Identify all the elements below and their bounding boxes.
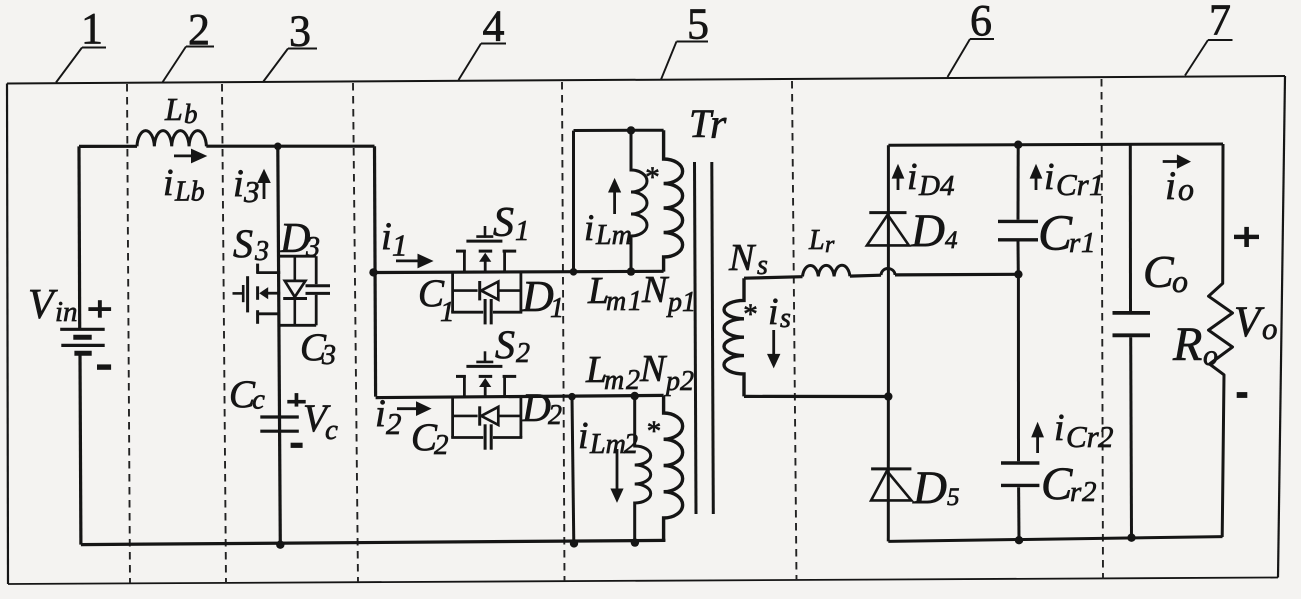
wire D5 branch — [887, 397, 890, 542]
label Cc — [229, 373, 265, 416]
svg-text:i: i — [233, 162, 244, 205]
node secondary bottom — [884, 392, 892, 400]
node Cr2 bottom — [1015, 536, 1023, 544]
svg-text:p: p — [666, 287, 682, 318]
svg-text:i: i — [1165, 163, 1176, 208]
svg-text:D: D — [521, 385, 551, 430]
label S2 — [495, 322, 530, 369]
label D2 — [521, 385, 562, 431]
svg-text:C: C — [1143, 246, 1175, 297]
section label 1 — [56, 4, 106, 83]
svg-text:3: 3 — [254, 236, 269, 267]
wire Lm1 box — [574, 130, 664, 272]
svg-text:N: N — [641, 269, 670, 311]
label S1 — [493, 200, 530, 247]
svg-text:i: i — [163, 162, 174, 204]
boundary line b — [222, 84, 226, 583]
label Lb — [164, 91, 198, 129]
polarity star Np2 — [647, 416, 662, 448]
label iD4 — [907, 156, 955, 202]
label iCr2 — [1054, 407, 1114, 454]
label C3 — [300, 326, 336, 371]
svg-text:S: S — [233, 221, 253, 266]
label i2 — [375, 392, 402, 441]
winding Np2 — [664, 396, 683, 542]
polarity star Ns — [743, 299, 758, 331]
svg-text:L: L — [164, 91, 183, 127]
capacitor Cc — [260, 417, 299, 431]
output minus sign — [1237, 392, 1248, 398]
svg-text:*: * — [743, 299, 758, 331]
svg-text:*: * — [645, 162, 660, 194]
label Ro — [1172, 318, 1218, 372]
svg-text:i: i — [907, 156, 918, 198]
svg-text:2: 2 — [434, 429, 449, 461]
svg-text:Lb: Lb — [174, 177, 205, 208]
label Np2 — [639, 348, 694, 397]
wire left input lower — [78, 353, 82, 544]
node Lm2 left top — [568, 393, 576, 401]
wire top rail — [888, 144, 1223, 145]
section label 4 — [459, 2, 507, 81]
diode D2 and capacitor C2 box — [451, 397, 522, 450]
arrow i2 — [397, 401, 432, 416]
label i1 — [381, 215, 408, 263]
svg-text:i: i — [375, 392, 386, 435]
arrow i3 — [257, 169, 271, 199]
node Lm1 top — [627, 126, 635, 134]
label Ns — [728, 237, 768, 281]
boundary line d — [562, 82, 565, 581]
battery minus sign — [97, 364, 111, 369]
svg-text:N: N — [728, 237, 757, 279]
label Lm2 — [585, 349, 640, 396]
svg-text:V: V — [1234, 299, 1265, 346]
svg-text:o: o — [1178, 171, 1194, 207]
node Cc bottom — [276, 541, 284, 549]
wire top-left rail — [79, 145, 137, 148]
wire corner down to i2 rail — [375, 146, 376, 396]
label i3 — [233, 162, 260, 209]
node Lm2 bottom — [631, 538, 639, 546]
svg-text:s: s — [780, 303, 791, 334]
wire Lm2 box — [572, 397, 574, 544]
label io — [1165, 163, 1194, 208]
svg-text:Lm: Lm — [595, 220, 632, 251]
svg-text:3: 3 — [243, 174, 260, 209]
svg-text:m: m — [604, 365, 624, 396]
wire secondary bottom — [744, 395, 888, 398]
wire bottom rail primary — [81, 540, 666, 544]
node Lm2 top — [631, 392, 639, 400]
svg-text:i: i — [578, 415, 589, 457]
svg-text:i: i — [768, 291, 779, 333]
node Cr1 top — [1014, 141, 1022, 149]
svg-text:r: r — [710, 102, 727, 148]
label D3 — [279, 216, 320, 263]
diode D4 — [867, 213, 909, 246]
svg-text:5: 5 — [947, 484, 960, 511]
svg-text:p: p — [664, 366, 680, 397]
wire left input — [77, 146, 81, 329]
arrow iLm — [608, 178, 621, 214]
svg-text:o: o — [1262, 311, 1278, 346]
svg-text:c: c — [252, 384, 265, 416]
svg-text:b: b — [184, 99, 198, 129]
wire Lb to corner — [206, 145, 374, 148]
Cc minus sign — [291, 443, 303, 448]
node Co bottom — [1127, 534, 1135, 542]
svg-text:7: 7 — [1209, 0, 1231, 45]
svg-text:i: i — [1054, 407, 1065, 449]
svg-text:1: 1 — [1081, 227, 1096, 259]
label iLm2 — [578, 415, 638, 460]
svg-text:2: 2 — [624, 429, 638, 460]
winding Np1 — [664, 130, 683, 271]
svg-text:Cr: Cr — [1056, 167, 1090, 202]
svg-text:2: 2 — [516, 338, 530, 369]
boundary line e — [792, 81, 797, 580]
svg-text:S: S — [495, 322, 515, 367]
diode D5 — [871, 469, 911, 501]
wire i1 rail — [373, 271, 664, 272]
svg-text:1: 1 — [440, 296, 455, 328]
svg-text:i: i — [381, 215, 392, 258]
node Cr midpoint — [1014, 270, 1022, 278]
svg-text:S: S — [493, 200, 514, 246]
wire S3 branch — [278, 146, 281, 545]
node Lm2 left bottom — [570, 539, 578, 547]
svg-text:2: 2 — [1082, 476, 1097, 508]
battery Vin — [60, 329, 104, 353]
node top S3 — [274, 143, 282, 151]
label is — [768, 291, 791, 334]
svg-text:R: R — [1172, 318, 1202, 371]
label Vin — [28, 282, 78, 328]
svg-text:i: i — [584, 208, 594, 249]
wire secondary top — [744, 277, 803, 279]
svg-text:N: N — [639, 348, 668, 390]
label D5 — [912, 462, 960, 514]
arrow iLb — [174, 149, 207, 164]
capacitor Cr2 — [1001, 274, 1039, 540]
svg-text:in: in — [55, 296, 78, 328]
capacitor Co — [1113, 145, 1151, 538]
svg-text:i: i — [1044, 156, 1055, 198]
svg-text:c: c — [325, 414, 338, 446]
label Tr — [689, 101, 727, 148]
svg-text:3: 3 — [321, 340, 336, 371]
boundary line c — [353, 83, 358, 582]
arrow iCr2 — [1031, 422, 1044, 453]
label Co — [1143, 246, 1188, 299]
node Lm1 left bottom — [570, 268, 578, 276]
svg-text:V: V — [28, 282, 58, 328]
label Lm1 — [587, 270, 642, 317]
svg-text:2: 2 — [1098, 419, 1114, 454]
arrow io — [1163, 154, 1191, 168]
arrow is — [767, 330, 780, 368]
svg-text:D: D — [918, 170, 940, 202]
label Vo — [1234, 299, 1278, 346]
svg-text:D: D — [912, 462, 947, 514]
svg-text:2: 2 — [626, 365, 640, 396]
svg-text:C: C — [1041, 458, 1073, 510]
label Cr1 — [1038, 206, 1096, 262]
svg-text:1: 1 — [628, 286, 642, 317]
svg-text:1: 1 — [515, 215, 530, 247]
label Vc — [303, 397, 338, 446]
svg-text:2: 2 — [680, 366, 694, 397]
svg-text:o: o — [1203, 339, 1218, 372]
transistor S2 — [456, 351, 516, 398]
polarity star Np1 — [645, 162, 660, 194]
inductor Lm1 — [631, 130, 647, 272]
svg-text:Lm: Lm — [589, 429, 626, 460]
section label 7 — [1185, 0, 1233, 76]
svg-text:r: r — [825, 232, 835, 258]
svg-text:4: 4 — [945, 227, 958, 254]
label D1 — [521, 272, 564, 324]
wire hop to Cr node — [895, 273, 1018, 277]
label S3 — [233, 221, 269, 267]
inductor Lm2 — [635, 396, 651, 543]
boundary line a — [127, 84, 130, 583]
inductor Lb — [137, 131, 206, 147]
transistor S1 — [456, 226, 516, 273]
svg-text:L: L — [808, 225, 825, 256]
node i1 — [369, 268, 377, 276]
arrow iLm2 — [610, 449, 623, 503]
arrow i1 — [396, 254, 434, 269]
arrow iCr1 — [1030, 164, 1043, 190]
label Lr — [808, 225, 835, 258]
section label 2 — [162, 5, 214, 83]
transformer core — [695, 162, 714, 514]
diode D1 and capacitor C1 box — [451, 271, 522, 324]
svg-text:*: * — [647, 416, 662, 448]
label C1 — [418, 272, 455, 328]
svg-text:1: 1 — [1089, 167, 1105, 202]
svg-text:3: 3 — [305, 232, 320, 263]
svg-text:m: m — [606, 286, 626, 317]
svg-text:1: 1 — [81, 4, 103, 53]
svg-text:1: 1 — [392, 228, 408, 263]
wire Lr to hop — [850, 274, 881, 278]
battery plus sign — [88, 300, 111, 318]
section label 3 — [263, 7, 317, 83]
capacitor Cr1 — [998, 145, 1038, 275]
node Lm1 bottom — [627, 267, 635, 275]
wire hop over D4 branch — [881, 268, 895, 275]
svg-text:1: 1 — [550, 293, 564, 324]
wire D4 branch — [887, 145, 890, 396]
svg-text:r: r — [1070, 476, 1082, 508]
section label 5 — [661, 0, 709, 80]
svg-text:r: r — [1069, 227, 1081, 259]
boundary line f — [1102, 79, 1104, 579]
inductor Lr — [803, 265, 850, 276]
svg-text:Cr: Cr — [1066, 419, 1100, 454]
label Cr2 — [1041, 458, 1097, 510]
label iLb — [163, 162, 205, 208]
winding Ns — [724, 278, 744, 396]
label iCr1 — [1044, 156, 1105, 202]
svg-text:D: D — [910, 205, 945, 257]
wire bottom rail secondary — [888, 537, 1222, 542]
svg-text:2: 2 — [386, 406, 402, 441]
label C2 — [411, 416, 449, 461]
transistor S3 — [233, 264, 281, 324]
label D4 — [910, 205, 958, 257]
svg-text:C: C — [1038, 206, 1073, 262]
wire i2 rail — [376, 395, 664, 397]
svg-text:o: o — [1172, 263, 1188, 299]
resistor Ro and output branch — [1209, 144, 1233, 537]
diode D3 and capacitor C3 box — [279, 256, 330, 325]
section label 6 — [948, 0, 995, 77]
label iLm — [584, 208, 632, 251]
arrow iD4 — [892, 164, 905, 190]
output plus sign — [1234, 227, 1259, 247]
label Np1 — [641, 269, 696, 318]
Cc plus sign — [287, 393, 305, 407]
svg-text:2: 2 — [548, 400, 562, 431]
svg-text:4: 4 — [940, 170, 955, 202]
